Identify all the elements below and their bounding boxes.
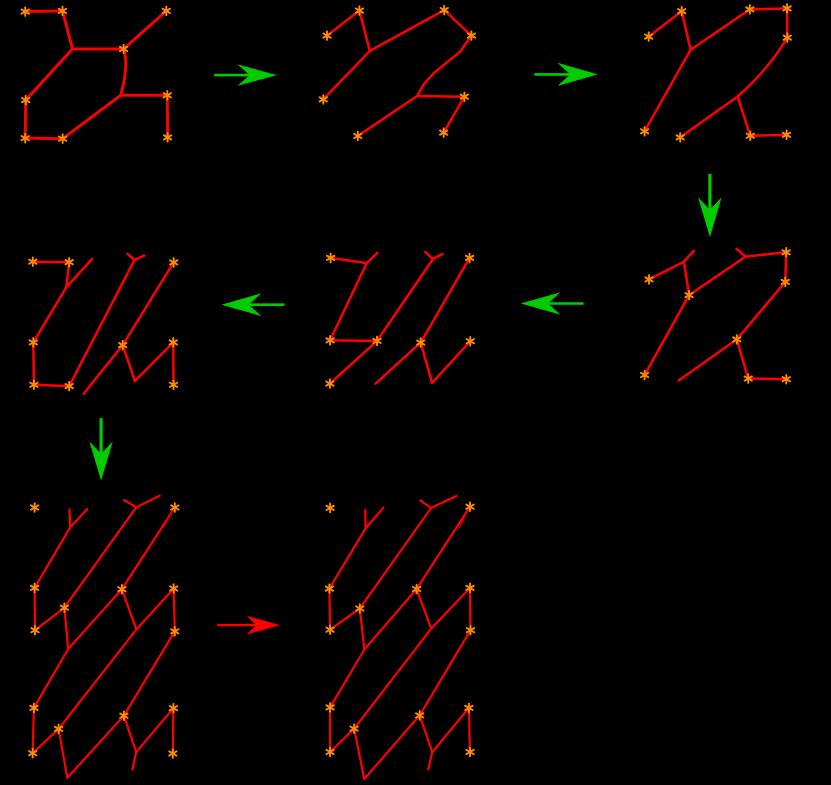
wire G3 p1-p2 (649, 11, 682, 36)
wire G6 t5-v (123, 345, 135, 381)
node G6 t8 (66, 382, 73, 391)
wire G6 t2-y1 (66, 262, 69, 287)
wire G7 (bottom-left) C3-B2p (124, 631, 175, 715)
wire G5 v-s6 (432, 341, 470, 383)
node G5 s4 (373, 337, 380, 346)
wire G7 (bottom-left) La-Y1 (68, 510, 71, 528)
node G6 t2 (66, 258, 73, 267)
wire G7 (bottom-left) B1-C1 (33, 588, 36, 630)
node G1 n7 (22, 134, 29, 143)
node G6 t5 (119, 341, 126, 350)
node G3 p3 (746, 5, 753, 14)
wire G5 s3-s4 (330, 339, 377, 342)
wire G1 n4-n3 (124, 11, 167, 49)
wire G4 r1-ja (649, 262, 684, 280)
wire G6 y2 stub left (128, 254, 135, 260)
wire G5 s5-end (376, 343, 421, 384)
wire G8 (bottom-middle) V-B3 (431, 588, 470, 629)
wire G1 j1-n4 (73, 47, 124, 50)
wire G7 (bottom-left) Y1p-B1p (34, 649, 68, 708)
wire G7 (bottom-left) B2-V (122, 589, 136, 629)
wire G7 (bottom-left) C1p-M2 (33, 729, 59, 753)
node G1 n9 (164, 133, 171, 142)
node G7 (bottom-left) B2 (118, 585, 125, 594)
graph state 3 (top-right) (641, 4, 791, 142)
node G7 (bottom-left) A3 (171, 503, 178, 512)
wire G8 (bottom-middle) B3-C3 (469, 588, 472, 630)
node G8 (bottom-middle) A1 (326, 504, 333, 513)
wire G4 r4-r5 (737, 282, 786, 340)
wire G2 k2-m7 (358, 96, 417, 136)
wire G5 s1-y1 (331, 258, 367, 263)
wire G6 v-t6 (135, 342, 173, 381)
node G2 m7 (354, 132, 361, 141)
node G5 s7 (326, 379, 333, 388)
wire G3 p2-q1 (682, 11, 691, 50)
wire G3 q2-p8 (738, 97, 751, 136)
node G7 (bottom-left) M (61, 603, 68, 612)
wire G7 (bottom-left) A3-B2 (122, 508, 175, 590)
node G3 p1 (645, 32, 652, 41)
wire G2 k2-m6 (417, 95, 464, 98)
node G4 r4 (782, 278, 789, 287)
wire G8 (bottom-middle) C1-M (330, 609, 360, 630)
wire G8 (bottom-middle) V-M2 (354, 629, 431, 729)
node G5 s3 (326, 336, 333, 345)
node G4 r7 (745, 374, 752, 383)
wire G6 t5-end (84, 345, 123, 394)
wire G3 q2-p7 (680, 97, 737, 138)
node G7 (bottom-left) B3p (170, 704, 177, 713)
node G2 m4 (468, 31, 475, 40)
wire G7 (bottom-left) Y1-B1 (35, 527, 71, 588)
wire G6 t4-t7 (32, 342, 35, 384)
node G7 (bottom-left) B2p (120, 711, 127, 720)
node G3 p5 (784, 33, 791, 42)
wire G3 p4-p5 (786, 8, 789, 37)
graph state 2 (top-middle) (320, 6, 476, 141)
wire G8 (bottom-middle) B1-C1 (328, 589, 331, 630)
node G1 n2 (59, 7, 66, 16)
node G1 n3 (163, 7, 170, 16)
wire G7 (bottom-left) M2-Y1pp (59, 729, 68, 778)
node G2 m3 (441, 6, 448, 15)
green down arrow G3 to G4 (698, 174, 722, 237)
node G3 p9 (783, 131, 790, 140)
node G8 (bottom-middle) C1p (326, 748, 333, 757)
node G4 r3 (783, 248, 790, 257)
wire G6 t3-t5 (123, 262, 174, 345)
wire G4 r5-r7 (737, 339, 748, 378)
wire G8 (bottom-middle) Y1p-B1p (330, 650, 364, 708)
wire G2 k1-m3 (370, 10, 444, 51)
wire G5 s2-s5 (421, 258, 470, 343)
node G5 s6 (467, 337, 474, 346)
wire G8 (bottom-middle) Y2 stub right (431, 496, 456, 508)
green left arrow G5 to G6 (221, 293, 284, 316)
wire G5 s5-v (421, 343, 432, 383)
wire G7 (bottom-left) V-B3 (136, 589, 173, 630)
node G7 (bottom-left) B1 (31, 584, 38, 593)
wire G7 (bottom-left) B2p-Vp (124, 716, 136, 753)
wire G4 r5-end (679, 339, 737, 380)
node G3 p4 (783, 4, 790, 13)
node G3 p2 (678, 7, 685, 16)
graph state G7 (bottom-left) (29, 496, 179, 778)
wire G1 n8-j2 (63, 95, 121, 138)
node G6 t3 (170, 258, 177, 267)
green arrow G1 to G2 (214, 64, 277, 86)
node G5 s5 (417, 338, 424, 347)
node G8 (bottom-middle) B2 (413, 585, 420, 594)
node G4 r2 (685, 291, 692, 300)
wire G6 y1 stub (66, 259, 92, 287)
wire G7 (bottom-left) Y2 stub left (124, 500, 136, 507)
wire G6 t7-t8 (34, 385, 69, 386)
wire G5 y1 stub (367, 253, 378, 263)
node G4 r5 (733, 335, 740, 344)
node G7 (bottom-left) C3 (171, 627, 178, 636)
wire G5 s4-s7 (330, 341, 377, 384)
wire G4 r2-r6 (645, 295, 690, 375)
node G3 p8 (747, 132, 754, 141)
wire G7 (bottom-left) Y2 stub right (136, 496, 159, 508)
wire G8 (bottom-middle) B2p-Vp (420, 715, 433, 752)
node G8 (bottom-middle) M2 (350, 724, 357, 733)
graph state 4 (middle-right) (641, 248, 790, 384)
node G5 s2 (466, 254, 473, 263)
node G6 t1 (29, 257, 36, 266)
wire G1 j2-n6 (121, 94, 168, 97)
wire G4 jb stub (737, 249, 746, 257)
node G8 (bottom-middle) B3p (465, 704, 472, 713)
node G1 n8 (59, 134, 66, 143)
wire G7 (bottom-left) B3p-C3p (172, 708, 175, 753)
wire G3 p5-q2 curve (738, 38, 788, 97)
node G8 (bottom-middle) B3 (466, 584, 473, 593)
wire G7 (bottom-left) B2p-Y1pp (67, 716, 124, 778)
wire G8 (bottom-middle) Y1 stub (366, 508, 384, 529)
node G2 m5 (320, 95, 327, 104)
node G6 t6 (170, 338, 177, 347)
node G3 p6 (641, 127, 648, 136)
wire G8 (bottom-middle) M2-Y1pp (354, 729, 364, 779)
graph state 1 (top-left) (22, 7, 172, 143)
node G1 n5 (22, 96, 29, 105)
node G3 p7 (677, 133, 684, 142)
wire G4 r7-r8 (748, 377, 786, 380)
wire G7 (bottom-left) C1-M (35, 608, 64, 631)
wire G6 t6-t9 (172, 342, 175, 384)
wire G1 j1-n5 (26, 49, 73, 100)
wire G8 (bottom-middle) M-Y1p (360, 609, 365, 650)
wire G8 (bottom-middle) La-Y1 (364, 510, 367, 528)
node G7 (bottom-left) C1p (29, 749, 36, 758)
wire G8 (bottom-middle) Vp tail (428, 752, 432, 769)
node G4 r8 (783, 375, 790, 384)
node G7 (bottom-left) M2 (55, 725, 62, 734)
node G8 (bottom-middle) B1p (326, 703, 333, 712)
wire G7 (bottom-left) Vp tail (132, 752, 136, 769)
wire G1 n4-j2 curve (121, 49, 126, 95)
wire G5 y2 stub right (433, 254, 442, 259)
node G8 (bottom-middle) A3 (466, 502, 473, 511)
node G8 (bottom-middle) C1 (326, 625, 333, 634)
node G8 (bottom-middle) C3 (467, 626, 474, 635)
wire G6 t1-t2 (33, 260, 69, 263)
node G6 t7 (30, 381, 37, 390)
wire G3 q1-p3 (691, 9, 750, 49)
graph state G8 (bottom-middle) (326, 496, 475, 779)
wire G3 p3-p4 (750, 8, 787, 9)
wire G8 (bottom-middle) Y2 stub left (420, 501, 431, 508)
node G8 (bottom-middle) C3p (466, 748, 473, 757)
wire G8 (bottom-middle) B2-Y1p (364, 589, 416, 650)
wire G7 (bottom-left) V-M2 (59, 630, 137, 729)
wire G8 (bottom-middle) B2-V (417, 589, 432, 629)
wire G8 (bottom-middle) A3 sliver stub (459, 507, 470, 528)
wire G3 q1-p6 (645, 50, 691, 132)
node G4 r6 (641, 371, 648, 380)
wire G2 m4-k2 curve (417, 36, 471, 96)
node G2 m8 (440, 128, 447, 137)
node G8 (bottom-middle) B1 (326, 584, 333, 593)
node G2 m6 (461, 92, 468, 101)
wire G2 m1-m2 (327, 11, 359, 36)
wire G1 n1-n2 (25, 9, 62, 13)
wire G8 (bottom-middle) A3-B2 (417, 507, 470, 589)
node G7 (bottom-left) A1 (31, 503, 38, 512)
node G7 (bottom-left) B3 (170, 584, 177, 593)
graph state 5 (middle-center) (326, 252, 474, 388)
node G2 m1 (323, 31, 330, 40)
wire G7 (bottom-left) M-Y1p (64, 608, 68, 649)
node G7 (bottom-left) C1 (31, 626, 38, 635)
wire G2 m2-k1 (359, 11, 369, 51)
wire G1 n6-n9 (166, 95, 169, 137)
node G7 (bottom-left) B1p (30, 704, 37, 713)
wire G1 n2-j1 (63, 11, 73, 49)
wire G6 y2-t8 (69, 260, 134, 386)
wire G1 n7-n8 (25, 137, 63, 140)
green left arrow G4 to G5 (521, 292, 584, 315)
wire G7 (bottom-left) B1p-C1p (33, 708, 34, 753)
wire G3 p8-p9 (750, 135, 786, 136)
wire G2 k1-m5 (323, 51, 370, 99)
wire G8 (bottom-middle) Y2-M (360, 508, 431, 609)
wire G8 (bottom-middle) B3p-C3p (469, 708, 470, 752)
wire G5 y1-s3 (330, 263, 367, 340)
wire G8 (bottom-middle) Y1-B1 (329, 528, 365, 588)
graph state 6 (middle-left) (29, 254, 177, 394)
wire G4 r3-r4 (784, 252, 787, 282)
wire G4 ja stub (684, 251, 694, 262)
wire G4 jb-r3 (746, 252, 787, 256)
wire G4 ja-r2 (684, 262, 689, 295)
node G5 s1 (327, 254, 334, 263)
wire G7 (bottom-left) Y1 stub (70, 509, 87, 527)
node G1 n4 (120, 45, 127, 54)
node G1 n1 (22, 7, 29, 16)
node G2 m2 (356, 6, 363, 15)
green down arrow G6 to G7 (89, 418, 112, 481)
wire G8 (bottom-middle) C3-B2p (420, 630, 471, 715)
wire G5 y2 stub left (425, 252, 433, 259)
red arrow G7 to G8 (217, 616, 280, 635)
wire G8 (bottom-middle) B2p-Y1pp (364, 715, 419, 779)
wire G6 y2 stub right (135, 256, 145, 261)
wire G4 r2-jb (689, 257, 746, 296)
wire G8 (bottom-middle) B1p-C1p (329, 707, 331, 752)
wire G7 (bottom-left) Y2-M (64, 507, 136, 607)
wire G6 y1-t4 (33, 287, 66, 342)
node G4 r1 (645, 275, 652, 284)
node G1 n6 (164, 91, 171, 100)
wire G7 (bottom-left) B3-C3 (174, 589, 175, 632)
node G7 (bottom-left) C3p (169, 749, 176, 758)
wire G8 (bottom-middle) C1p-M2 (330, 729, 354, 752)
node G6 t9 (170, 381, 177, 390)
wire G5 y2-s4 (377, 259, 433, 341)
wire G2 m8-m6 (444, 97, 465, 133)
wire G7 (bottom-left) B2-Y1p (68, 589, 122, 649)
wire G7 (bottom-left) A3 sliver stub (164, 508, 175, 528)
wire G7 (bottom-left) Vp-B3p (136, 708, 173, 752)
wire G1 n5-n7 (24, 100, 27, 138)
wire G8 (bottom-middle) Vp-B3p (432, 708, 469, 752)
node G6 t4 (30, 338, 37, 347)
green arrow G2 to G3 (534, 63, 598, 86)
node G8 (bottom-middle) B2p (416, 711, 423, 720)
wire G2 m3-m4 (444, 10, 471, 35)
node G8 (bottom-middle) M (356, 604, 363, 613)
